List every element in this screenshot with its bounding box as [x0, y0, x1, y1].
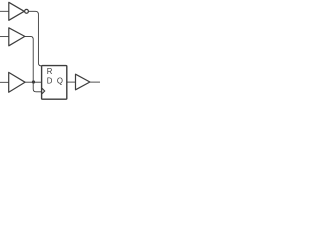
wire input A to inverter U1 — [0, 10, 9, 12]
flip-flop U4 body — [42, 66, 67, 100]
wire U1 output to R pin of flip-flop — [29, 11, 42, 66]
buffer U5 — [76, 74, 90, 90]
svg-text:Q: Q — [57, 77, 63, 86]
wire Q output to buffer U5 — [67, 81, 76, 83]
wire input B to buffer U2 — [0, 36, 9, 38]
buffer U2 — [9, 28, 25, 46]
buffer U3 — [9, 72, 25, 92]
svg-text:D: D — [47, 77, 53, 86]
inverter U1 bubble — [25, 9, 29, 13]
wire output Y — [90, 81, 100, 83]
clock chevron — [42, 88, 45, 94]
svg-text:R: R — [47, 67, 53, 76]
inverter U1 — [9, 2, 24, 20]
wire U3 output to D pin — [25, 81, 42, 83]
wire U2 output down to clock pin — [25, 36, 42, 91]
junction dot D/clock net — [32, 80, 35, 83]
wire input C to buffer U3 — [0, 81, 9, 83]
